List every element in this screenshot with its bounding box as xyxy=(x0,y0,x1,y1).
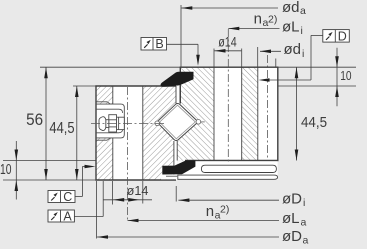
svg-text:n: n xyxy=(254,11,262,28)
svg-text:A: A xyxy=(63,209,72,223)
svg-text:B: B xyxy=(155,37,163,51)
svg-text:56: 56 xyxy=(26,111,43,129)
svg-text:a: a xyxy=(303,234,309,246)
svg-text:i: i xyxy=(301,25,303,37)
svg-text:10: 10 xyxy=(0,162,12,178)
svg-text:i: i xyxy=(303,197,305,209)
svg-text:ød: ød xyxy=(284,41,302,58)
svg-text:øD: øD xyxy=(282,190,302,207)
svg-text:ø14: ø14 xyxy=(127,183,149,198)
svg-text:44,5: 44,5 xyxy=(301,114,327,131)
svg-text:ø14: ø14 xyxy=(218,35,237,50)
svg-text:a: a xyxy=(301,217,307,229)
svg-text:øL: øL xyxy=(282,19,300,36)
svg-text:10: 10 xyxy=(340,68,351,83)
svg-text:a: a xyxy=(300,5,306,17)
svg-text:44,5: 44,5 xyxy=(49,120,74,137)
svg-text:i: i xyxy=(302,48,304,60)
svg-text:D: D xyxy=(338,29,347,43)
svg-text:2): 2) xyxy=(220,203,229,215)
svg-text:øL: øL xyxy=(282,210,300,227)
svg-text:øD: øD xyxy=(282,228,302,245)
svg-text:2): 2) xyxy=(268,14,277,26)
svg-text:C: C xyxy=(63,190,72,204)
svg-text:ød: ød xyxy=(282,0,300,16)
svg-text:n: n xyxy=(206,203,214,220)
